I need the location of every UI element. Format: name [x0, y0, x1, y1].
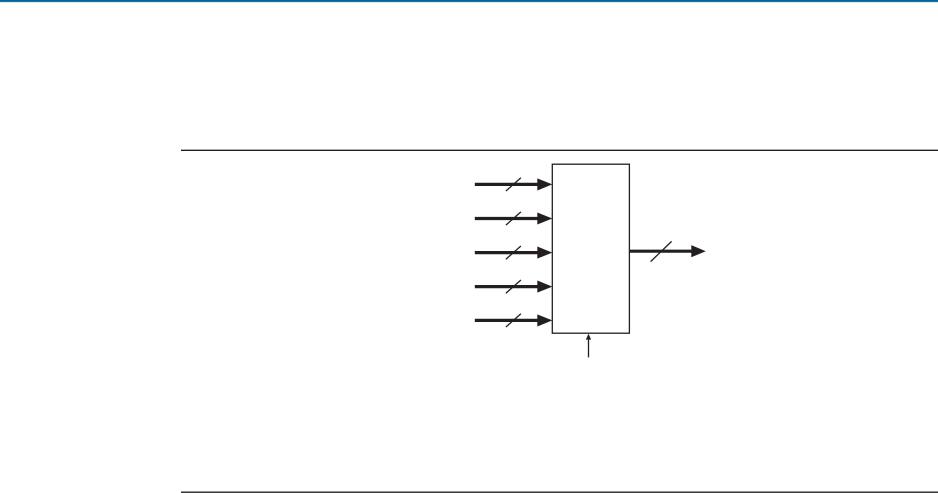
output bus arrow: [630, 245, 706, 257]
slash on output bus: [651, 241, 672, 261]
header bar: [0, 0, 938, 3]
input bus arrow 1: [475, 178, 553, 190]
mux block U1: [552, 164, 629, 333]
input bus arrow 3: [475, 247, 553, 259]
slash on bus 1: [506, 178, 521, 191]
slash on bus 3: [506, 246, 521, 259]
top rule: [181, 149, 938, 151]
select input arrow: [586, 334, 591, 358]
input bus arrow 4: [475, 281, 553, 293]
input bus arrow 2: [475, 212, 553, 224]
slash on bus 2: [506, 212, 521, 225]
slash on bus 4: [506, 280, 521, 293]
bottom rule: [181, 491, 938, 493]
input bus arrow 5: [475, 314, 553, 326]
slash on bus 5: [506, 314, 521, 327]
